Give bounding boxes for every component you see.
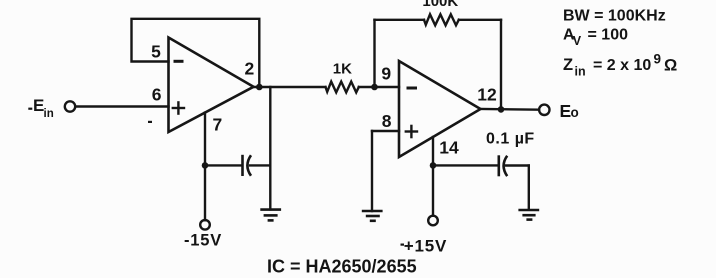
svg-text:6: 6	[152, 85, 162, 105]
svg-text:= 100: = 100	[588, 27, 629, 44]
label Eo	[560, 101, 579, 121]
node B junction R1/100K/pin9	[371, 84, 378, 91]
ground G3	[518, 210, 539, 220]
svg-text:2: 2	[245, 58, 255, 78]
wire 100K right vertical	[500, 20, 502, 110]
svg-text:IC = HA2650/2655: IC = HA2650/2655	[267, 257, 417, 277]
svg-text:5: 5	[151, 42, 161, 62]
output terminal Eo	[539, 105, 549, 115]
op-amp U1	[148, 38, 254, 133]
svg-text:BW = 100KHz: BW = 100KHz	[563, 8, 666, 25]
wire U1 output to R1	[254, 86, 326, 88]
wire 100K top right	[459, 19, 501, 21]
node U1 output junction	[256, 84, 263, 91]
label Ein	[28, 96, 53, 120]
svg-text:Z: Z	[563, 56, 573, 74]
svg-text:9: 9	[654, 52, 662, 67]
capacitor C1	[205, 155, 270, 176]
svg-text:14: 14	[439, 138, 459, 158]
svg-text:0.1 µF: 0.1 µF	[486, 130, 535, 147]
terminal +15V	[428, 216, 438, 226]
wire output branch to ground G1	[269, 87, 271, 209]
svg-text:9: 9	[381, 64, 391, 84]
svg-text:7: 7	[213, 114, 223, 134]
wire 100K top left	[375, 19, 425, 21]
resistor R1 1K	[326, 82, 359, 93]
svg-text:8: 8	[382, 111, 392, 131]
wire U1 feedback pin2 to pin5	[132, 19, 260, 87]
wire node B to U2 pin 9	[375, 86, 400, 88]
label +15V	[401, 237, 448, 256]
ground G1	[260, 210, 281, 221]
node C pin14/C2 junction	[430, 162, 437, 169]
resistor R2 100K	[424, 14, 459, 25]
ground G2	[362, 211, 383, 221]
terminal -15V	[200, 220, 210, 230]
svg-text:V: V	[573, 34, 582, 48]
svg-text:1K: 1K	[333, 61, 352, 78]
wire C2 to ground G3	[528, 166, 530, 210]
op-amp U2	[399, 61, 481, 157]
wire R1 to node B	[359, 86, 375, 88]
wire node C to +15V terminal	[432, 165, 434, 215]
wire U1 pin 7 down	[204, 113, 206, 166]
svg-text:E: E	[560, 101, 572, 121]
svg-text:in: in	[575, 65, 586, 79]
spec text Zin	[563, 52, 677, 79]
wire U2 output to Eo	[481, 108, 540, 111]
svg-text:= 2 x 10: = 2 x 10	[593, 57, 651, 74]
svg-text:in: in	[44, 108, 54, 120]
input terminal Ein	[65, 101, 75, 111]
svg-text:12: 12	[477, 84, 497, 104]
wire U2 pin 14 down	[432, 137, 434, 165]
svg-text:100K: 100K	[422, 0, 458, 10]
capacitor C2 0.1uF	[433, 155, 529, 176]
wire pin 8 to ground	[371, 131, 373, 211]
wire 100K left vertical	[373, 20, 375, 87]
node U2 output junction	[498, 106, 505, 113]
svg-text:o: o	[571, 105, 579, 120]
svg-text:Ω: Ω	[664, 57, 677, 75]
wire node A to -15V terminal	[204, 165, 206, 220]
node A pin7/C1 junction	[202, 162, 209, 169]
svg-text:-15V: -15V	[184, 231, 222, 249]
wire Ein to U1 pin 6	[76, 105, 169, 107]
wire U2 pin 8 stub	[372, 130, 399, 132]
spec text Av	[563, 27, 628, 48]
svg-text:+15V: +15V	[404, 237, 447, 256]
